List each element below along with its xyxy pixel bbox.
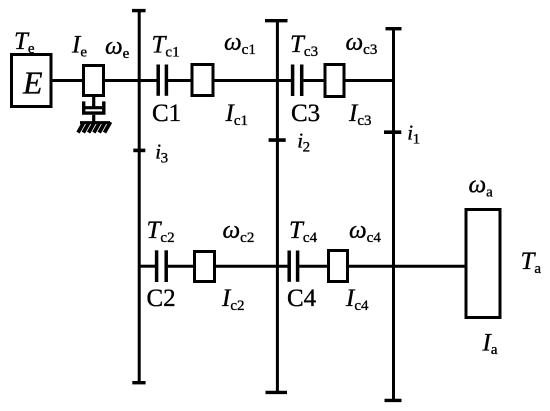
wire C1 to Ic1 xyxy=(168,79,192,82)
inertia Ic1 rect xyxy=(192,65,213,96)
shaft 3 node tick i3 xyxy=(133,149,145,153)
svg-text:Tc2: Tc2 xyxy=(147,217,175,246)
clutch C2 bar left xyxy=(155,250,159,282)
clutch C4 bar right xyxy=(296,251,300,282)
wire Ie to C1 across shaft i3 xyxy=(104,79,158,82)
wire C3 to Ic3 xyxy=(303,79,326,82)
shaft 3 top cap xyxy=(132,9,146,12)
ground hatch top edge xyxy=(80,121,110,124)
svg-text:Ta: Ta xyxy=(521,248,542,277)
svg-text:Tc3: Tc3 xyxy=(290,31,318,60)
load inertia Ia rect xyxy=(466,210,500,318)
svg-text:ωc1: ωc1 xyxy=(224,29,256,58)
shaft 1 bottom cap xyxy=(385,399,402,402)
svg-text:ωc3: ωc3 xyxy=(346,29,378,58)
svg-text:i3: i3 xyxy=(155,139,168,166)
shaft 2 vertical line xyxy=(276,21,279,393)
wire Ic1 to C3 across shaft i2 xyxy=(213,79,292,82)
svg-text:E: E xyxy=(22,65,43,101)
shaft 3 vertical line xyxy=(138,11,141,383)
svg-text:ωe: ωe xyxy=(105,33,130,62)
wire E to Ie xyxy=(51,79,84,82)
wire C4 to Ic4 xyxy=(299,265,329,268)
svg-text:Ia: Ia xyxy=(482,330,498,359)
svg-text:Tc4: Tc4 xyxy=(289,217,318,246)
svg-text:C4: C4 xyxy=(287,285,317,312)
damper stem top xyxy=(92,95,95,108)
svg-text:C2: C2 xyxy=(147,285,176,312)
shaft 1 node tick i1 xyxy=(384,130,401,134)
svg-text:C1: C1 xyxy=(152,100,181,127)
clutch C1 bar left xyxy=(156,65,160,96)
shaft 2 bottom cap xyxy=(266,391,288,394)
damper cup xyxy=(84,101,104,113)
svg-text:Ie: Ie xyxy=(71,32,87,61)
svg-text:ωc2: ωc2 xyxy=(223,217,255,246)
damper piston plate xyxy=(85,106,102,109)
clutch C3 bar right xyxy=(300,65,304,97)
wire shaft3 to C2 xyxy=(139,265,155,268)
svg-text:Ic4: Ic4 xyxy=(345,285,369,314)
wire C2 to Ic2 xyxy=(168,265,195,268)
clutch C3 bar left xyxy=(291,65,295,97)
shaft 1 top cap xyxy=(386,27,402,30)
shaft 2 node tick i2 xyxy=(269,138,286,142)
svg-text:Ic3: Ic3 xyxy=(348,100,372,129)
inertia Ic4 rect xyxy=(329,251,348,282)
wire Ic2 to C4 across shaft i2 xyxy=(215,265,289,268)
svg-text:Tc1: Tc1 xyxy=(152,32,180,61)
shaft 3 bottom cap xyxy=(132,381,145,384)
inertia Ic2 rect xyxy=(195,252,215,282)
svg-text:Ic2: Ic2 xyxy=(221,285,245,314)
clutch C1 bar right xyxy=(165,65,169,96)
wire Ic4 to load Ia across shaft i1 xyxy=(348,265,467,268)
svg-text:Ic1: Ic1 xyxy=(225,100,249,129)
svg-text:ωa: ωa xyxy=(469,172,494,201)
inertia Ic3 rect xyxy=(325,65,344,97)
clutch C2 bar right xyxy=(164,250,168,282)
clutch C4 bar left xyxy=(287,251,291,282)
svg-text:Te: Te xyxy=(14,28,35,57)
svg-text:ωc4: ωc4 xyxy=(349,217,381,246)
inertia Ie rect xyxy=(84,66,104,96)
shaft 2 top cap xyxy=(265,19,288,22)
ground hatching xyxy=(78,122,111,133)
engine box E xyxy=(12,55,52,107)
svg-text:C3: C3 xyxy=(291,100,320,127)
svg-text:i1: i1 xyxy=(407,121,420,148)
shaft 1 vertical line xyxy=(392,29,395,401)
svg-text:i2: i2 xyxy=(297,129,310,156)
wire Ic3 to shaft i1 xyxy=(344,79,394,82)
damper stem bottom xyxy=(92,115,95,123)
